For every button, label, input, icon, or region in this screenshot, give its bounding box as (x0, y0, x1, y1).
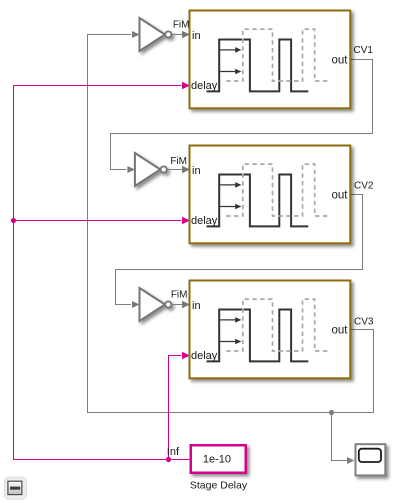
zoom-out minus button (4, 477, 26, 499)
svg-text:FiM: FiM (171, 290, 188, 301)
svg-text:delay: delay (191, 215, 218, 227)
inverter U1 (NOT gate, top) (140, 18, 172, 51)
svg-text:in: in (192, 30, 201, 42)
wire magenta branch to block3 delay (169, 352, 191, 460)
junction dot on CV3 net (329, 410, 334, 415)
svg-text:1e-10: 1e-10 (203, 454, 231, 466)
svg-text:in: in (192, 165, 201, 177)
svg-text:out: out (332, 55, 349, 67)
wire branch to scope (332, 413, 355, 465)
variable time delay block 3 (190, 281, 351, 379)
wire U1 output to block1 in (172, 31, 190, 39)
inverter U2 (NOT gate, middle) (135, 153, 167, 186)
svg-text:Inf: Inf (167, 446, 180, 458)
svg-text:in: in (192, 300, 201, 312)
svg-text:out: out (332, 190, 349, 202)
wire magenta branch to block2 delay (14, 217, 191, 225)
variable time delay block 2 (190, 146, 351, 244)
wire U3 output to block3 in (172, 301, 190, 309)
wire U2 output to block2 in (167, 166, 190, 174)
svg-text:FiM: FiM (170, 156, 187, 167)
svg-text:Stage Delay: Stage Delay (190, 479, 248, 491)
junction dot magenta left column (11, 218, 16, 223)
variable time delay block 1 (190, 11, 351, 109)
scope block (356, 444, 386, 475)
wire CV1 net: block1 out to inverter U2 input (111, 60, 373, 174)
svg-text:delay: delay (191, 350, 218, 362)
svg-text:FiM: FiM (173, 19, 190, 30)
wire CV3 net: block3 out to inverter U1 input (88, 31, 374, 413)
svg-text:out: out (332, 325, 349, 337)
svg-text:CV2: CV2 (354, 181, 374, 192)
svg-text:CV1: CV1 (354, 45, 374, 56)
svg-text:CV3: CV3 (354, 316, 374, 327)
junction dot magenta near Stage Delay (166, 457, 171, 462)
constant block "Stage Delay" (1e-10) (191, 445, 246, 473)
wire magenta delay net: Stage Delay out to block1 delay (14, 82, 191, 460)
wire CV2 net: block2 out to inverter U3 input (116, 195, 363, 309)
inverter U3 (NOT gate, bottom) (140, 288, 172, 321)
svg-text:delay: delay (191, 80, 218, 92)
